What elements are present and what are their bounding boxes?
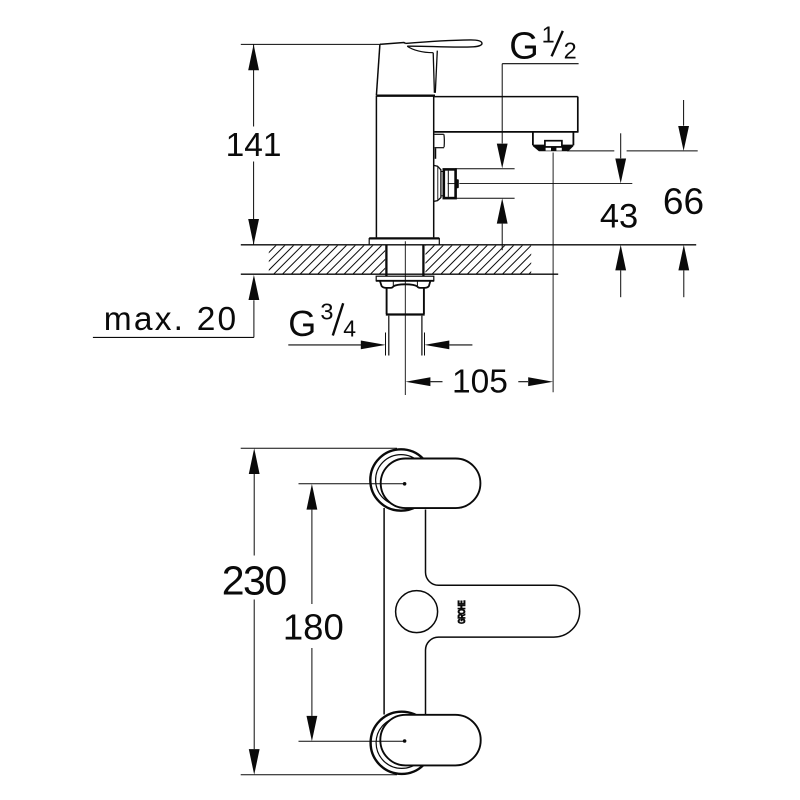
- central circle (cartridge cap): [396, 591, 438, 633]
- top escutcheon inner circle: [376, 455, 427, 506]
- svg-text:230: 230: [222, 558, 287, 604]
- G1/2 upper arrow: [501, 64, 503, 144]
- aerator: [533, 132, 574, 151]
- outlet nub: [456, 179, 459, 188]
- svg-text:105: 105: [452, 363, 508, 400]
- deck hatching: [238, 245, 567, 275]
- svg-text:G: G: [288, 303, 316, 344]
- svg-text:G: G: [509, 26, 539, 68]
- side outlet flange: [434, 165, 441, 201]
- shank through deck: [385, 245, 387, 276]
- bottom lever stadium: [380, 715, 480, 766]
- 180 extension line bottom: [299, 740, 404, 742]
- G1/2 lower arrow: [497, 198, 508, 223]
- dimension 66 lower arrow: [678, 245, 689, 271]
- svg-text:4: 4: [343, 316, 356, 342]
- deck bottom line: [241, 273, 558, 275]
- dimension 43 upper arrow: [620, 133, 622, 158]
- body right edge: [433, 96, 435, 238]
- side outlet neck: [441, 172, 444, 196]
- bottom escutcheon inner circle: [376, 717, 427, 768]
- aerator centerline extension: [552, 153, 554, 393]
- bottom center dot: [403, 739, 407, 743]
- bottom escutcheon outer circle: [371, 712, 433, 774]
- nut body: [386, 288, 388, 314]
- lever saddle curve: [407, 46, 433, 53]
- dimension 180: [307, 484, 318, 741]
- dimension 141 line: [248, 44, 259, 244]
- top lever stadium: [381, 459, 481, 509]
- svg-text:180: 180: [283, 606, 344, 647]
- lever front lip: [433, 53, 434, 93]
- dimension 230: [249, 448, 260, 775]
- svg-text:43: 43: [600, 197, 638, 235]
- svg-text:GROHE: GROHE: [456, 600, 468, 624]
- side outlet nipple G1/2: [444, 169, 456, 198]
- top center dot: [403, 482, 407, 486]
- svg-text:141: 141: [226, 127, 282, 164]
- body top thick line: [376, 94, 435, 96]
- 180 extension line top: [299, 483, 404, 485]
- extension line top (230): [241, 447, 397, 449]
- dimension 66 upper arrow: [683, 100, 685, 126]
- body left edge: [375, 96, 377, 238]
- svg-text:66: 66: [663, 181, 704, 222]
- lever handle base: [376, 43, 405, 96]
- threaded tailpiece: [388, 316, 390, 356]
- spout bottom line: [434, 131, 578, 133]
- washer under deck: [376, 276, 434, 281]
- extension line top (141): [241, 43, 380, 45]
- extension line bottom (230): [241, 774, 397, 776]
- svg-text:1: 1: [542, 21, 555, 47]
- svg-text:max. 20: max. 20: [104, 301, 239, 338]
- spout top line: [434, 96, 578, 98]
- dimension 43 lower arrow: [615, 245, 626, 271]
- G1/2 extension lines: [455, 168, 515, 170]
- lever blade: [406, 40, 482, 47]
- G1/2 leader line: [502, 63, 578, 65]
- dimension G3/4 arrows: [288, 333, 472, 356]
- max. 20 dimension: [93, 275, 259, 338]
- label G1/2: [509, 21, 576, 67]
- spout underside step: [434, 133, 443, 135]
- dimension 105: [406, 377, 554, 386]
- svg-text:3: 3: [320, 299, 333, 325]
- faucet body plan outline: [384, 508, 580, 716]
- aerator bottom extension line: [567, 150, 614, 152]
- top escutcheon outer circle: [370, 449, 431, 510]
- nut chamfer arcs: [380, 281, 431, 288]
- outlet centerline: [448, 183, 457, 185]
- spout right edge: [577, 97, 579, 132]
- base flange: [369, 237, 439, 244]
- main centerline: [404, 241, 406, 395]
- label G3/4: [288, 299, 356, 344]
- deck top line: [241, 244, 696, 246]
- svg-text:2: 2: [564, 38, 577, 64]
